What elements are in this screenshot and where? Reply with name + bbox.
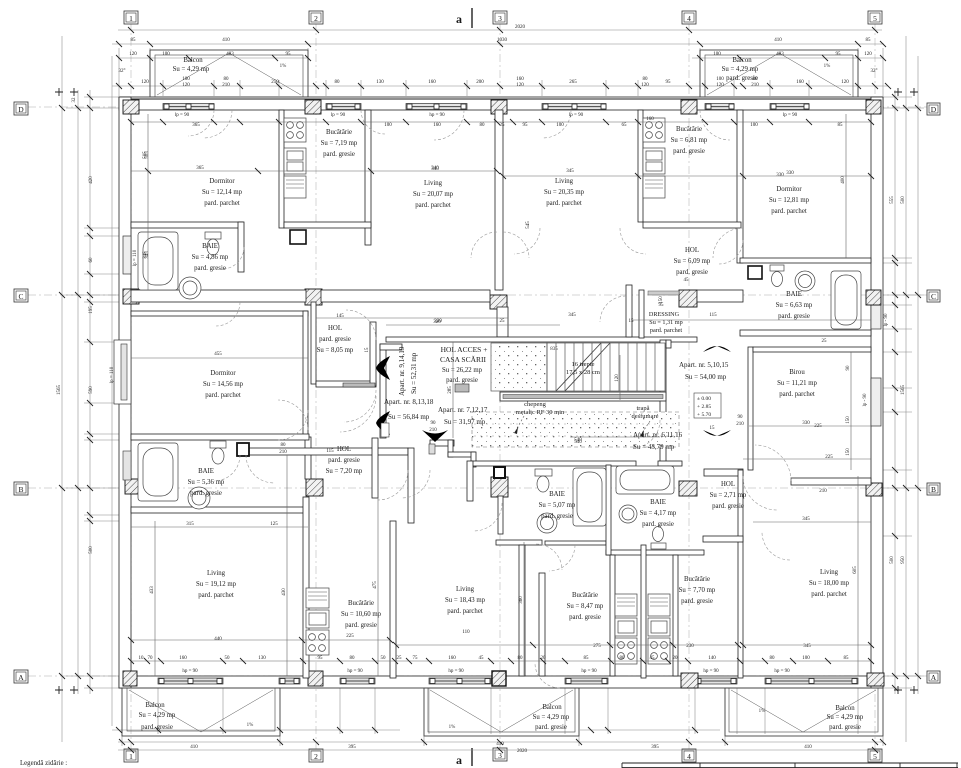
svg-text:25: 25: [397, 656, 403, 661]
bottom right table: [622, 763, 958, 768]
svg-text:120: 120: [716, 83, 724, 88]
svg-text:Su = 20,35 mp: Su = 20,35 mp: [544, 189, 585, 196]
level box: [694, 393, 721, 418]
kitchen BR1 fridge: [615, 594, 637, 616]
svg-text:lp = 110: lp = 110: [110, 366, 115, 383]
interior dimension lines: [131, 114, 871, 676]
wall entry left vertical: [467, 461, 473, 501]
svg-text:500: 500: [890, 556, 895, 564]
grid bubble 5 bottom: [868, 749, 882, 762]
interior dims: [214, 117, 827, 649]
kitchen TL sink: [284, 148, 306, 174]
extension combs top: [119, 48, 883, 97]
svg-text:pard. gresie: pard. gresie: [323, 151, 355, 158]
wall hol top TR: [643, 222, 741, 228]
wall stair core top: [386, 337, 697, 342]
svg-text:Balcon: Balcon: [183, 57, 203, 64]
svg-text:Bucătărie: Bucătărie: [572, 592, 598, 599]
kitchen BL sink: [306, 610, 329, 628]
arrow right upper chevron: [703, 346, 731, 352]
svg-text:A: A: [18, 673, 24, 682]
svg-text:95: 95: [836, 52, 842, 57]
svg-text:160: 160: [796, 80, 804, 85]
svg-text:hp = 90: hp = 90: [703, 669, 719, 674]
svg-text:345: 345: [802, 517, 810, 522]
svg-text:545: 545: [526, 221, 531, 229]
wall hol720 right: [408, 448, 414, 523]
ticks on dims: [128, 27, 878, 33]
svg-text:1%: 1%: [824, 64, 831, 69]
lower apartments walls: [131, 438, 743, 678]
wall buc/dorm TR: [737, 110, 743, 263]
svg-text:pard. gresie: pard. gresie: [190, 490, 222, 497]
svg-text:HOL: HOL: [337, 446, 351, 453]
svg-text:540: 540: [574, 440, 582, 445]
sink TL: [179, 277, 201, 299]
wall above B column: [305, 437, 311, 479]
svg-text:330: 330: [776, 173, 784, 178]
svg-text:210: 210: [751, 83, 759, 88]
svg-text:410: 410: [774, 38, 782, 43]
svg-text:pard. gresie: pard. gresie: [328, 457, 360, 464]
svg-text:80: 80: [350, 656, 356, 661]
svg-text:500: 500: [89, 546, 94, 554]
svg-text:Living: Living: [207, 570, 226, 577]
svg-text:Su = 31,97 mp: Su = 31,97 mp: [444, 418, 486, 426]
svg-text:345: 345: [566, 169, 574, 174]
balcony top right: [700, 50, 858, 97]
hp labels: [175, 113, 798, 674]
svg-text:chepeng: chepeng: [524, 401, 546, 408]
svg-text:250: 250: [271, 80, 279, 85]
svg-text:45: 45: [650, 656, 656, 661]
svg-text:25: 25: [500, 319, 506, 324]
svg-text:1565: 1565: [901, 385, 906, 396]
fixtures: [123, 118, 861, 664]
svg-text:lp - 90: lp - 90: [884, 313, 889, 327]
svg-text:130: 130: [258, 656, 266, 661]
svg-text:420: 420: [89, 176, 94, 184]
windows bottom wall: [158, 678, 858, 684]
svg-text:B: B: [18, 485, 23, 494]
svg-text:120: 120: [516, 83, 524, 88]
wall birou left: [748, 347, 753, 470]
svg-text:HOL: HOL: [685, 247, 699, 254]
bath507 sink: [537, 513, 557, 533]
svg-text:4: 4: [687, 14, 691, 23]
svg-text:605: 605: [853, 566, 858, 574]
C line wall right segment: [697, 290, 743, 302]
svg-text:Su = 18,43 mp: Su = 18,43 mp: [445, 597, 486, 604]
svg-text:195: 195: [89, 306, 94, 314]
svg-text:330: 330: [786, 171, 794, 176]
svg-text:Birou: Birou: [789, 369, 805, 376]
wall bath507 left: [498, 496, 503, 534]
svg-text:45: 45: [479, 656, 485, 661]
grid bubble A left: [14, 670, 28, 683]
corner cross marks: [55, 88, 918, 694]
door arcs: [188, 110, 791, 688]
svg-text:475: 475: [373, 581, 378, 589]
svg-text:Apart. nr. 6,11,16: Apart. nr. 6,11,16: [633, 431, 683, 439]
svg-text:265: 265: [569, 80, 577, 85]
room texts: [188, 126, 850, 629]
C line wall mid segment: [321, 290, 490, 302]
svg-text:lp = 90: lp = 90: [569, 113, 584, 118]
wall stair left: [380, 344, 386, 438]
leader arrow chepeng: [516, 416, 524, 430]
svg-text:hp = 90: hp = 90: [448, 669, 464, 674]
svg-text:80: 80: [620, 656, 626, 661]
svg-text:pard. gresie: pard. gresie: [535, 724, 567, 731]
svg-text:70: 70: [148, 656, 154, 661]
interior walls top-right apartment: [638, 110, 871, 336]
svg-text:160: 160: [646, 117, 654, 122]
outer wall top: [119, 97, 883, 110]
toilet ML: [210, 441, 226, 448]
svg-text:Dormitor: Dormitor: [209, 178, 235, 185]
svg-text:pard. gresie: pard. gresie: [676, 269, 708, 276]
svg-text:360: 360: [519, 596, 524, 604]
kitchen TR stove: [643, 118, 665, 142]
svg-text:15: 15: [710, 426, 716, 431]
wall corridor bottom long: [471, 461, 636, 466]
svg-text:Su = 2,71 mp: Su = 2,71 mp: [710, 492, 747, 499]
svg-text:DRESSING: DRESSING: [649, 311, 680, 318]
svg-text:Apart. nr. 9,14,19: Apart. nr. 9,14,19: [398, 346, 406, 396]
svg-text:80: 80: [480, 123, 486, 128]
svg-text:100: 100: [750, 123, 758, 128]
svg-text:pard. gresie: pard. gresie: [642, 521, 674, 528]
svg-text:CASA SCĂRII: CASA SCĂRII: [440, 355, 487, 364]
svg-text:pard. gresie: pard. gresie: [345, 622, 377, 629]
svg-text:1: 1: [129, 14, 133, 23]
wall dressing left: [639, 290, 644, 338]
svg-text:Su = 4,86 mp: Su = 4,86 mp: [192, 254, 229, 261]
wall bath TL top: [131, 222, 243, 228]
svg-text:pard. gresie: pard. gresie: [829, 724, 861, 731]
wardrobe dressing: [648, 291, 679, 295]
corner sink ML: [237, 443, 249, 456]
svg-text:210: 210: [279, 450, 287, 455]
svg-text:1%: 1%: [280, 64, 287, 69]
svg-text:pard. parchet: pard. parchet: [546, 200, 582, 207]
wall hol-stair divider TR: [626, 285, 632, 337]
svg-text:90: 90: [846, 365, 851, 371]
svg-text:Bucătărie: Bucătărie: [676, 126, 702, 133]
svg-text:Legendă zidărie :: Legendă zidărie :: [20, 760, 67, 767]
svg-text:210: 210: [819, 489, 827, 494]
svg-text:hp = 90: hp = 90: [581, 669, 597, 674]
svg-text:pard. gresie: pard. gresie: [681, 598, 713, 605]
svg-text:pard. gresie: pard. gresie: [541, 513, 573, 520]
svg-text:225: 225: [814, 424, 822, 429]
bath417 sink: [619, 505, 637, 523]
svg-text:Balcon: Balcon: [542, 704, 562, 711]
svg-text:500: 500: [901, 196, 906, 204]
svg-text:pard. gresie: pard. gresie: [712, 503, 744, 510]
svg-text:95: 95: [286, 52, 292, 57]
svg-text:BAIE: BAIE: [549, 491, 565, 498]
svg-text:HOL ACCES +: HOL ACCES +: [441, 345, 488, 354]
svg-text:Su = 6,09 mp: Su = 6,09 mp: [674, 258, 711, 265]
wall dorm/kitchen: [279, 110, 284, 228]
svg-text:HOL: HOL: [328, 325, 342, 332]
svg-text:metalic RF 30 min: metalic RF 30 min: [516, 409, 565, 416]
svg-text:210: 210: [222, 83, 230, 88]
svg-text:100: 100: [556, 123, 564, 128]
svg-text:210: 210: [736, 422, 744, 427]
svg-text:150: 150: [659, 296, 664, 304]
svg-text:140: 140: [708, 656, 716, 661]
svg-text:85: 85: [866, 38, 872, 43]
svg-text:440: 440: [214, 637, 222, 642]
svg-text:Living: Living: [424, 180, 443, 187]
svg-text:315: 315: [186, 522, 194, 527]
bath417 tub: [616, 466, 674, 494]
svg-text:395: 395: [651, 745, 659, 750]
svg-text:110: 110: [462, 630, 470, 635]
svg-text:pard. parchet: pard. parchet: [811, 591, 847, 598]
svg-text:pard. parchet: pard. parchet: [204, 200, 240, 207]
wall buc770/living: [738, 470, 743, 678]
svg-text:Su = 12,14 mp: Su = 12,14 mp: [202, 189, 243, 196]
svg-text:10: 10: [139, 656, 145, 661]
bath507 toilet: [535, 469, 552, 476]
svg-text:C: C: [18, 292, 23, 301]
kitchen BR2 stove: [648, 638, 670, 664]
svg-text:80: 80: [518, 656, 524, 661]
wall right of stairs vertical: [666, 340, 671, 348]
svg-text:1%: 1%: [449, 725, 456, 730]
sink TR: [795, 271, 815, 291]
svg-text:85: 85: [844, 656, 850, 661]
svg-text:HOL: HOL: [721, 481, 735, 488]
svg-text:80: 80: [281, 443, 287, 448]
svg-text:A: A: [931, 673, 937, 682]
svg-text:Su = 54,00 mp: Su = 54,00 mp: [685, 373, 727, 381]
svg-text:835: 835: [550, 347, 558, 352]
svg-text:455: 455: [214, 352, 222, 357]
svg-text:100: 100: [713, 52, 721, 57]
svg-text:hp = 90: hp = 90: [347, 669, 363, 674]
wall bath TL right: [238, 222, 244, 272]
door threshold bars: [343, 383, 469, 454]
grid bubble 2 bottom: [309, 749, 323, 762]
svg-text:Su = 7,70 mp: Su = 7,70 mp: [679, 587, 716, 594]
svg-text:Bucătărie: Bucătărie: [684, 576, 710, 583]
svg-text:2: 2: [314, 14, 318, 23]
svg-text:BAIE: BAIE: [202, 243, 218, 250]
svg-text:400: 400: [841, 176, 846, 184]
svg-text:20: 20: [541, 656, 547, 661]
svg-text:Su = 6,63 mp: Su = 6,63 mp: [776, 302, 813, 309]
extension combs right: [871, 97, 924, 688]
svg-text:Su = 19,12 mp: Su = 19,12 mp: [196, 581, 237, 588]
svg-text:125: 125: [270, 522, 278, 527]
svg-text:160: 160: [428, 80, 436, 85]
svg-text:433: 433: [150, 586, 155, 594]
section marker a top: [456, 8, 472, 28]
svg-text:85: 85: [584, 656, 590, 661]
wall livingBC right: [519, 545, 525, 676]
svg-text:1030: 1030: [497, 38, 508, 43]
grid bubble B left: [14, 482, 28, 495]
outer wall left: [119, 97, 131, 688]
grid bubble C left: [14, 289, 28, 302]
kitchen BR2 fridge: [648, 594, 670, 616]
svg-text:95: 95: [318, 656, 324, 661]
svg-text:25: 25: [500, 123, 506, 128]
svg-text:340: 340: [431, 167, 439, 172]
svg-text:1%: 1%: [759, 709, 766, 714]
svg-text:Balcon: Balcon: [835, 705, 855, 712]
svg-text:3: 3: [498, 751, 502, 760]
svg-text:90: 90: [431, 421, 437, 426]
svg-text:Su = 12,81 mp: Su = 12,81 mp: [769, 197, 810, 204]
wall entry 914: [370, 322, 376, 386]
grid bubble A right: [927, 671, 940, 683]
windows top wall: [163, 104, 809, 110]
svg-text:1%: 1%: [247, 723, 254, 728]
balcony top left: [150, 50, 308, 97]
apartment annotations: [384, 346, 729, 451]
svg-text:75: 75: [413, 656, 419, 661]
svg-text:25: 25: [822, 339, 828, 344]
svg-text:+ 5.70: + 5.70: [697, 412, 711, 418]
wall baie TR bottom: [740, 330, 871, 336]
svg-text:± 0.00: ± 0.00: [697, 396, 711, 402]
svg-text:Su = 4,29 mp: Su = 4,29 mp: [722, 66, 759, 73]
wall kitchens left: [610, 555, 615, 676]
wall living/buc BL: [303, 497, 309, 678]
arrow right lower chevron: [703, 430, 731, 436]
wall birou top: [753, 347, 871, 352]
grid bubble 1 bottom: [124, 749, 138, 762]
interior walls top-left apartment: [131, 110, 503, 290]
svg-text:15: 15: [365, 347, 370, 353]
svg-text:80: 80: [753, 77, 759, 82]
svg-text:lp = 110: lp = 110: [133, 249, 138, 266]
svg-text:160: 160: [448, 656, 456, 661]
svg-text:17,5 x 28 cm: 17,5 x 28 cm: [566, 369, 600, 376]
svg-text:410: 410: [190, 745, 198, 750]
svg-text:32: 32: [72, 97, 77, 103]
grid bubble 4 bottom: [682, 749, 696, 762]
svg-text:Living: Living: [555, 178, 574, 185]
svg-text:a: a: [456, 12, 462, 26]
grid bubble 3 bottom: [493, 748, 507, 761]
svg-text:555: 555: [890, 196, 895, 204]
grid bubble D left: [14, 102, 28, 115]
grid bubble B right: [927, 483, 940, 495]
svg-text:85: 85: [131, 38, 137, 43]
svg-text:95: 95: [523, 123, 529, 128]
svg-text:5: 5: [873, 752, 877, 761]
svg-text:50: 50: [381, 656, 387, 661]
grid bubble 2 top: [309, 11, 323, 24]
svg-text:80: 80: [335, 80, 341, 85]
svg-text:Su = 26,22 mp: Su = 26,22 mp: [442, 367, 483, 374]
svg-text:pard. gresie: pard. gresie: [673, 148, 705, 155]
svg-text:hp = 90: hp = 90: [429, 113, 445, 118]
svg-text:pard. parchet: pard. parchet: [447, 608, 483, 615]
wall kitchens mid: [641, 545, 646, 678]
stair labels: [516, 361, 659, 420]
grid bubble 1 top: [124, 11, 138, 24]
svg-text:pard. gresie: pard. gresie: [319, 336, 351, 343]
svg-text:410: 410: [222, 38, 230, 43]
balcony bottom center: [424, 688, 579, 736]
svg-text:Su = 6,81 mp: Su = 6,81 mp: [671, 137, 708, 144]
chepeng dotted zone: [472, 412, 679, 447]
wall stair bottom-step left: [430, 440, 454, 446]
grid bubble 3 top: [493, 11, 507, 24]
corner sink TL: [290, 230, 306, 244]
svg-text:Su = 52,31 mp: Su = 52,31 mp: [410, 352, 418, 394]
svg-text:pard. parchet: pard. parchet: [779, 391, 815, 398]
svg-text:Su = 4,29 mp: Su = 4,29 mp: [173, 66, 210, 73]
C line wall left segment: [131, 290, 306, 302]
kitchen BR1 sink: [615, 618, 637, 636]
wall grid3 living divider: [495, 110, 503, 290]
kitchen TR sink: [643, 148, 665, 174]
svg-text:120: 120: [864, 52, 872, 57]
wall stair top step: [380, 344, 402, 350]
wall under hol720: [240, 448, 408, 455]
black arrows: [376, 346, 731, 442]
svg-text:395: 395: [348, 745, 356, 750]
svg-text:483: 483: [776, 52, 784, 57]
svg-text:C: C: [931, 292, 936, 301]
svg-text:65: 65: [622, 123, 628, 128]
svg-text:pard. gresie: pard. gresie: [446, 377, 478, 384]
svg-text:100: 100: [384, 123, 392, 128]
svg-text:90: 90: [738, 415, 744, 420]
svg-text:Su = 5,36 mp: Su = 5,36 mp: [188, 479, 225, 486]
svg-text:Su = 14,56 mp: Su = 14,56 mp: [203, 381, 244, 388]
extension combs left: [66, 97, 131, 688]
svg-text:120: 120: [182, 83, 190, 88]
arrow left lower: [376, 411, 390, 435]
wall baths mid: [606, 465, 611, 555]
extension combs bottom: [122, 688, 883, 746]
corner sink TR hol: [748, 266, 762, 279]
svg-text:100: 100: [182, 77, 190, 82]
window left wall lower: [123, 451, 131, 480]
svg-text:pard. parchet: pard. parchet: [198, 592, 234, 599]
svg-text:85: 85: [838, 123, 844, 128]
svg-text:1: 1: [129, 752, 133, 761]
svg-text:lp = 90: lp = 90: [783, 113, 798, 118]
svg-text:Su = 10,60 mp: Su = 10,60 mp: [341, 611, 382, 618]
wall dorm2 top: [131, 311, 308, 316]
svg-text:32°: 32°: [871, 69, 878, 74]
columns C line: [123, 289, 881, 309]
svg-text:1565: 1565: [57, 385, 62, 396]
svg-text:20: 20: [673, 656, 679, 661]
arrow down center: [422, 430, 448, 442]
window left wall upper: [123, 236, 131, 274]
svg-text:Su = 8,05 mp: Su = 8,05 mp: [317, 347, 354, 354]
arrow left upper: [376, 356, 390, 380]
outer wall right: [871, 97, 883, 688]
svg-text:410: 410: [496, 742, 504, 747]
svg-text:15: 15: [629, 319, 635, 324]
wall B line left: [131, 507, 308, 513]
wall grid3 below column: [497, 307, 508, 337]
svg-text:Dormitor: Dormitor: [210, 370, 236, 377]
